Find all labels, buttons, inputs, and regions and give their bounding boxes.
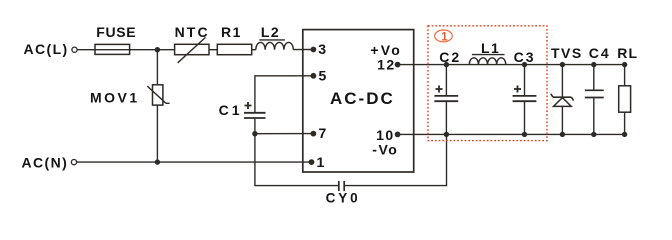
svg-text:L2: L2 [261,24,280,40]
svg-text:C3: C3 [514,49,536,65]
svg-text:AC(L): AC(L) [24,41,69,57]
svg-text:NTC: NTC [175,24,210,40]
svg-text:AC(N): AC(N) [22,154,69,170]
svg-text:7: 7 [319,125,327,141]
svg-text:C1: C1 [219,102,243,118]
svg-text:12: 12 [377,56,396,72]
svg-text:CY0: CY0 [326,191,361,206]
svg-text:TVS: TVS [551,45,583,61]
svg-text:AC-DC: AC-DC [330,89,395,108]
svg-text:C4: C4 [589,45,611,61]
svg-text:1: 1 [441,31,448,43]
svg-text:MOV1: MOV1 [90,90,140,106]
svg-text:5: 5 [319,68,327,84]
svg-text:C2: C2 [439,49,461,65]
svg-text:FUSE: FUSE [96,24,136,40]
svg-text:R1: R1 [221,24,242,40]
svg-text:1: 1 [317,154,325,170]
svg-text:-Vo: -Vo [372,141,398,157]
svg-text:L1: L1 [481,40,500,56]
svg-text:3: 3 [318,41,326,57]
svg-text:RL: RL [617,45,638,61]
